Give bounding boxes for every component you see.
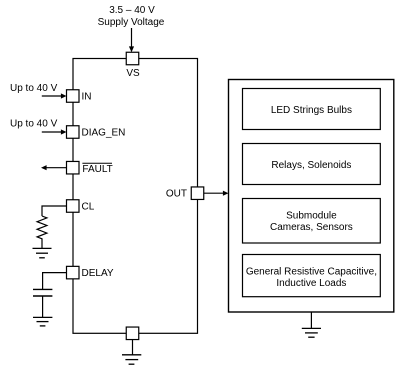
ground (CL resistor) xyxy=(33,248,52,257)
load box: General Resistive Capacitive, Inductive Loads xyxy=(243,255,381,297)
pin DIAG_EN xyxy=(67,126,126,139)
pin GND (bottom) xyxy=(126,327,139,340)
svg-text:LED Strings Bulbs: LED Strings Bulbs xyxy=(271,105,352,116)
pin FAULT (active low) xyxy=(67,161,113,175)
svg-text:DELAY: DELAY xyxy=(82,268,114,279)
wire capacitor to ground xyxy=(42,296,44,317)
svg-text:Inductive Loads: Inductive Loads xyxy=(276,278,346,289)
ground (loads) xyxy=(302,328,321,337)
pin DELAY xyxy=(67,266,114,279)
pin IN xyxy=(67,90,92,103)
svg-text:FAULT: FAULT xyxy=(82,164,112,175)
load box: Relays, Solenoids xyxy=(243,144,381,185)
wire GND pin to ground xyxy=(132,340,134,355)
svg-text:DIAG_EN: DIAG_EN xyxy=(82,128,126,139)
svg-text:Up to 40 V: Up to 40 V xyxy=(10,118,58,129)
ground (DELAY capacitor) xyxy=(33,317,52,326)
capacitor on DELAY xyxy=(33,289,52,296)
svg-text:General Resistive Capacitive,: General Resistive Capacitive, xyxy=(246,267,377,278)
svg-text:Up to 40 V: Up to 40 V xyxy=(10,83,58,94)
ground (device GND) xyxy=(122,355,141,364)
resistor on CL xyxy=(37,216,47,248)
svg-text:Supply Voltage: Supply Voltage xyxy=(98,17,165,28)
loads enclosure box xyxy=(229,80,394,313)
svg-text:OUT: OUT xyxy=(166,189,187,200)
svg-text:VS: VS xyxy=(126,68,140,79)
load box: Submodule Cameras, Sensors xyxy=(243,199,381,244)
arrow into DIAG_EN xyxy=(42,129,67,134)
wire CL to resistor xyxy=(42,206,67,216)
pin VS xyxy=(126,52,140,79)
svg-text:IN: IN xyxy=(82,92,92,103)
arrow OUT to loads xyxy=(204,191,229,196)
svg-text:Submodule: Submodule xyxy=(286,210,337,221)
pin CL xyxy=(67,200,95,213)
supply arrow into VS xyxy=(129,28,134,52)
wire: device outline xyxy=(73,59,198,334)
svg-text:CL: CL xyxy=(82,202,95,213)
arrow out of FAULT xyxy=(41,165,67,170)
pin OUT xyxy=(166,187,204,200)
svg-text:Relays, Solenoids: Relays, Solenoids xyxy=(271,160,351,171)
load box: LED Strings Bulbs xyxy=(243,89,381,130)
wire DELAY to capacitor xyxy=(43,273,67,289)
svg-text:Cameras, Sensors: Cameras, Sensors xyxy=(270,222,353,233)
arrow into IN xyxy=(42,93,67,98)
svg-text:3.5 – 40 V: 3.5 – 40 V xyxy=(109,5,155,16)
wire loads box to ground xyxy=(310,312,312,328)
